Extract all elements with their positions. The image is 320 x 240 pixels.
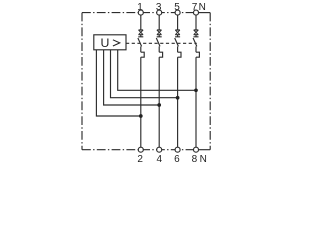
- junction node on phase L1: [139, 114, 143, 118]
- svg-text:U: U: [101, 36, 110, 50]
- terminal 2: [138, 147, 143, 152]
- relay label > chevron: [113, 40, 120, 46]
- thermal release pole 2 (rectangular jog): [159, 52, 162, 57]
- wire: pole 1 lower contact lead: [140, 46, 142, 52]
- svg-text:N: N: [199, 2, 206, 13]
- svg-text:N: N: [200, 154, 207, 164]
- disconnector X symbol pole 1: [139, 30, 144, 37]
- wire: sense tap 3 from U> to phase L3: [111, 50, 178, 98]
- svg-text:1: 1: [137, 2, 143, 13]
- svg-text:4: 4: [157, 154, 163, 164]
- svg-text:5: 5: [174, 2, 180, 13]
- wire: phase L3 main run to terminal 6: [177, 57, 179, 147]
- thermal release pole 4 (rectangular jog): [196, 52, 199, 57]
- enclosure boundary (dash-dot device outline): [82, 13, 210, 150]
- enclosure boundary solid corner segments near N: [196, 12, 210, 14]
- disconnector X symbol pole 3: [175, 30, 180, 37]
- breaker contact pole 2 (fixed bar + blade): [156, 37, 161, 47]
- terminal 4: [157, 147, 162, 152]
- breaker contact pole 4 (fixed bar + blade): [193, 37, 198, 47]
- terminal 6: [175, 147, 180, 152]
- voltage monitor relay U> box: [94, 35, 126, 50]
- junction node on phase L2: [157, 103, 161, 107]
- breaker contact pole 3 (fixed bar + blade): [175, 37, 180, 47]
- wire: phase L2 main run to terminal 4: [158, 57, 160, 147]
- wire: pole 3 lower contact lead: [177, 46, 179, 52]
- wire: phase L4 main run to terminal 8: [195, 57, 197, 147]
- wire: sense tap 2 from U> to phase L2: [104, 50, 160, 105]
- svg-text:6: 6: [174, 154, 180, 164]
- wire: phase L2 upper lead (terminal 3 to disconnector): [158, 15, 160, 30]
- wire: sense tap 1 from U> to phase L1: [96, 50, 140, 116]
- wire: phase L3 upper lead (terminal 5 to disconnector): [177, 15, 179, 30]
- wire: phase L4/N upper lead (terminal 7 to disconnector): [195, 15, 197, 30]
- wire: pole 2 lower contact lead: [158, 46, 160, 52]
- svg-text:7: 7: [192, 2, 198, 13]
- disconnector X symbol pole 4: [194, 30, 199, 37]
- disconnector X symbol pole 2: [157, 30, 162, 37]
- terminal 8: [194, 147, 199, 152]
- terminal 3: [157, 10, 162, 15]
- breaker contact pole 1 (fixed bar + blade): [138, 37, 143, 47]
- svg-text:2: 2: [137, 154, 143, 164]
- terminal 7: [194, 10, 199, 15]
- wire: sense tap 4 from U> to phase L4: [118, 50, 196, 91]
- thermal release pole 3 (rectangular jog): [178, 52, 181, 57]
- thermal release pole 1 (rectangular jog): [141, 52, 144, 57]
- junction node on phase L4: [194, 88, 198, 92]
- wire: phase L1 main run to terminal 2: [140, 57, 142, 147]
- mechanical linkage (dashed trip line from U> relay to all poles): [126, 42, 197, 44]
- terminal 1: [138, 10, 143, 15]
- svg-text:3: 3: [156, 2, 162, 13]
- wire: phase L1 upper lead (terminal 1 to disconnector): [140, 15, 142, 30]
- terminal 5: [175, 10, 180, 15]
- svg-text:8: 8: [192, 154, 198, 164]
- wire: pole 4 lower contact lead: [195, 46, 197, 52]
- junction node on phase L3: [176, 96, 180, 100]
